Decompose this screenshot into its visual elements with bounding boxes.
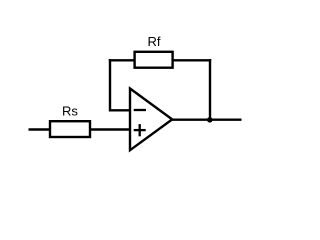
wire: output xyxy=(171,118,242,120)
wire: inverting input horizontal xyxy=(110,109,130,111)
wire: feedback left vertical xyxy=(109,59,111,111)
svg-text:Rf: Rf xyxy=(148,34,161,49)
wire: input left segment xyxy=(29,128,51,130)
svg-text:Rs: Rs xyxy=(62,104,78,119)
op-amp inverting input minus sign xyxy=(134,109,146,111)
op-amp non-inverting input plus sign xyxy=(134,129,146,131)
wire: feedback right vertical xyxy=(209,59,211,120)
junction node at output/feedback xyxy=(207,117,213,123)
resistor Rs xyxy=(50,121,90,137)
wire: feedback top-right horizontal xyxy=(173,59,212,61)
op-amp U1 triangle xyxy=(130,89,172,151)
wire: feedback top-left horizontal xyxy=(109,59,135,61)
wire: Rs to op-amp non-inverting input xyxy=(90,128,130,130)
resistor Rf xyxy=(135,52,173,68)
